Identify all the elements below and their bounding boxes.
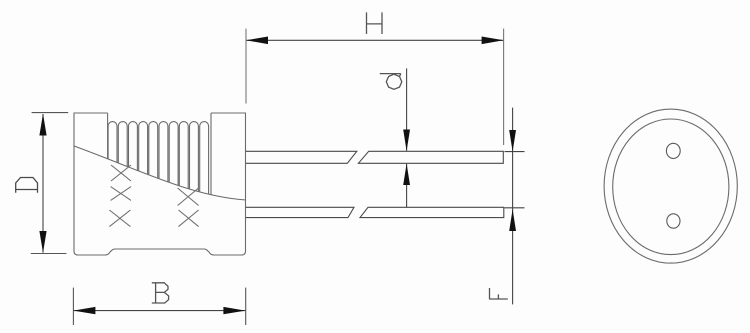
arrowhead d up: [403, 164, 410, 185]
winding cross mark X3: [109, 210, 130, 227]
arrowhead H left: [246, 37, 268, 45]
dimension B right extension line: [245, 288, 247, 325]
arrowhead B left: [73, 307, 95, 314]
winding cross mark X1: [111, 165, 131, 181]
arrowhead H right: [482, 37, 504, 45]
top lead segment 1 with break: [246, 151, 357, 163]
dimension H left extension line: [245, 29, 247, 104]
section break curve: [74, 146, 246, 200]
label D (rotated): [16, 178, 39, 193]
dimension B line: [73, 310, 245, 312]
arrowhead F down: [509, 130, 516, 152]
winding cross mark X2: [111, 187, 131, 201]
arrowhead D bottom: [39, 231, 46, 253]
arrowhead D top: [39, 114, 46, 136]
dimension d line upper part: [406, 68, 408, 150]
dimension D bottom extension line: [31, 253, 67, 255]
label B: [152, 283, 169, 303]
dimension H line: [246, 39, 504, 41]
top view: lower pin hole: [667, 214, 680, 228]
top lead segment 2: [358, 151, 503, 163]
dimension D top extension line: [32, 112, 69, 114]
dimension F line: [512, 108, 514, 305]
bottom lead segment 1 with break: [246, 207, 354, 217]
coil winding turns: [108, 122, 209, 195]
top view: outer flange ellipse: [604, 109, 737, 263]
top view: upper pin hole: [666, 143, 680, 158]
label F (rotated): [489, 288, 508, 299]
top view: inner body ellipse: [613, 119, 729, 255]
label H: [367, 12, 383, 34]
dimension H right extension line: [503, 29, 505, 145]
dimension F top tick: [505, 151, 525, 153]
bobbin body outline (side view): [74, 113, 246, 255]
arrowhead B right: [223, 307, 245, 314]
bottom lead segment 2: [360, 207, 504, 217]
label d (rotated): [380, 74, 402, 90]
winding cross mark X4: [178, 188, 199, 206]
arrowhead F up: [509, 209, 516, 231]
winding cross mark X5: [179, 210, 199, 227]
arrowhead d down: [403, 130, 410, 152]
dimension d line lower part: [406, 164, 408, 207]
right flange inner edge: [210, 113, 212, 195]
left flange inner edge: [107, 113, 109, 159]
dimension B left extension line: [72, 288, 74, 325]
dimension F bottom tick: [505, 207, 525, 209]
dimension D line: [42, 114, 44, 253]
